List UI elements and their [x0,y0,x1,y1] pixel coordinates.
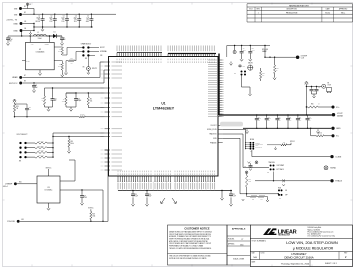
revision history table [247,3,353,5]
svg-text:SGND: SGND [330,168,336,170]
svg-text:C14: C14 [54,99,57,101]
svg-text:25V: 25V [74,19,76,21]
svg-text:3.3uH: 3.3uH [38,38,42,40]
svg-text:VIN: VIN [14,8,18,10]
svg-text:0.1uF: 0.1uF [252,50,255,52]
title block [250,225,352,267]
svg-text:1210: 1210 [62,21,65,23]
terminal E11 PGOOD [17,220,20,223]
svg-text:0.1uF: 0.1uF [135,196,139,198]
svg-text:R4: R4 [90,99,92,101]
svg-text:MODE: MODE [250,139,254,141]
jumper JP5 [241,71,243,73]
svg-text:4.7uF: 4.7uF [233,196,237,198]
capacitor C5 [90,14,92,18]
U1 top pins cluster A (VIN) [117,52,162,54]
U1 left pins [105,61,111,63]
resistor R4 [87,93,89,97]
svg-text:JP5: JP5 [234,73,236,75]
svg-text:EXTVCC: EXTVCC [9,83,18,85]
svg-text:E11: E11 [22,219,25,221]
svg-text:C5: C5 [87,16,89,18]
svg-text:C12: C12 [243,66,246,68]
svg-text:INTVCC: INTVCC [290,141,295,143]
svg-text:1uF: 1uF [35,87,37,89]
capacitor C9 [241,46,243,51]
svg-text:6.3V: 6.3V [299,119,302,121]
svg-text:C26: C26 [29,107,32,109]
svg-text:R16: R16 [311,104,314,106]
ground comp2 [65,105,67,107]
svg-text:6.3V: 6.3V [278,119,281,121]
wire VOUT rail [219,114,332,116]
capacitor C7 [61,36,63,38]
net flag temp [13,99,16,101]
capacitor C1 [42,14,44,18]
svg-text:22uF: 22uF [61,17,64,19]
U3 ground [48,203,50,206]
wire CLKIN [252,150,330,157]
svg-text:GND: GND [13,23,18,25]
svg-text:R13: R13 [248,179,251,181]
wire fb bus [53,133,105,157]
svg-text:54.9k: 54.9k [58,51,61,53]
net arrow flags [161,198,165,204]
svg-text:TRACK: TRACK [335,180,342,183]
turret E8 VOUT [322,84,326,88]
svg-text:C13: C13 [78,99,81,101]
svg-text:REV: REV [257,9,260,11]
terminal E2 VIN [19,13,22,16]
wire RUN [223,138,279,194]
svg-text:VIN: VIN [100,55,102,57]
wire mode vertical junctions [245,141,247,149]
svg-text:1M: 1M [16,108,18,110]
svg-text:ON: ON [285,190,287,192]
svg-text:54.9k: 54.9k [58,66,61,68]
svg-text:GND: GND [13,30,18,32]
capacitor C3 [66,14,68,18]
wire VIN rail [22,13,116,15]
svg-text:VCC: VCC [31,44,34,46]
capacitor C17 out [256,115,258,117]
svg-text:1uF: 1uF [63,39,65,41]
svg-text:100uF: 100uF [36,17,40,19]
svg-text:CUSTOMER NOTICE: CUSTOMER NOTICE [184,226,210,230]
svg-text:CLKOUT: CLKOUT [210,125,216,127]
svg-text:EXT PLLIN: EXT PLLIN [256,147,262,149]
resistor R15 [317,135,325,137]
svg-text:E8: E8 [328,83,330,85]
svg-text:100k: 100k [248,180,251,182]
dnp arrow track [248,162,251,164]
terminal E17 VO+ [331,105,334,108]
wire UPAR to U1 [22,62,104,77]
svg-text:Thursday, September 11, 2014: Thursday, September 11, 2014 [281,262,310,265]
jumper JP4 VOUT SELECT [19,142,21,144]
ground input rail [42,27,44,29]
turret E12 [233,50,236,53]
IC U3 LTC6908 [37,176,60,203]
svg-text:R5 90.9k: R5 90.9k [38,141,43,143]
svg-text:MODE_PLLIN: MODE_PLLIN [207,129,217,131]
svg-text:100pF: 100pF [78,100,82,102]
wire U3 OUT2 [60,190,103,221]
svg-text:C24: C24 [318,87,321,89]
svg-text:6.3V: 6.3V [268,119,271,121]
diode D1 [46,35,53,37]
svg-text:VOUT: VOUT [337,113,343,115]
svg-text:E9: E9 [24,81,26,83]
capacitor C24 sense [316,86,317,87]
wire COMPB net [66,92,105,94]
svg-text:PGOOD: PGOOD [7,221,15,223]
capacitor C19 [81,189,82,190]
svg-text:VIN: VIN [14,14,18,16]
resistor R1 [54,46,62,48]
capacitor C20 out [287,115,289,117]
resistor R19 [68,136,69,137]
svg-text:UTEMP: UTEMP [5,184,13,186]
svg-text:9/11/14: 9/11/14 [325,12,330,14]
svg-text:100: 100 [262,75,264,77]
svg-text:JP2: JP2 [267,172,269,174]
svg-text:VO+: VO+ [336,107,339,109]
svg-text:1nF: 1nF [54,100,56,102]
svg-text:PRODUCTION: PRODUCTION [286,12,298,14]
capacitor C2 [54,14,56,18]
resistor R8 [26,151,36,153]
svg-text:1210: 1210 [74,21,77,23]
U1 right pins (VOUT bus) [218,54,220,116]
wire U2 left pin [22,60,26,62]
svg-text:100k: 100k [62,100,65,102]
wire to jumper [62,48,83,56]
svg-text:R18: R18 [92,214,95,216]
svg-text:BOOST: BOOST [100,47,105,49]
resistor R12b [259,195,265,197]
svg-text:LT4440B05: LT4440B05 [36,51,45,53]
svg-text:Fax: (408)434-0507: Fax: (408)434-0507 [308,234,321,236]
svg-text:TBD-L: TBD-L [341,12,345,14]
svg-text:SHDN: SHDN [26,60,30,62]
terminal E18 VO- [331,134,334,137]
svg-text:VOUT: VOUT [328,85,332,87]
svg-text:μ MODULE REGULATOR: μ MODULE REGULATOR [293,247,334,251]
svg-text:C2: C2 [51,16,53,18]
svg-text:GND = 5: GND = 5 [3,186,8,188]
svg-text:VOUT SELECT: VOUT SELECT [16,134,27,136]
capacitor C21 out [297,115,299,117]
svg-text:KELVIN: KELVIN [248,63,253,65]
svg-text:L1: L1 [37,32,39,34]
svg-text:50V: 50V [9,41,11,43]
terminal E9 EXTVCC [19,82,22,85]
svg-text:RUN: RUN [278,187,281,189]
svg-text:10k: 10k [90,100,92,102]
svg-text:INTVCC: INTVCC [92,68,97,70]
svg-text:CLKIN: CLKIN [335,156,341,158]
svg-text:OSCON: OSCON [35,21,40,23]
capacitor C15 [132,191,134,193]
capacitor C8 [33,82,34,83]
turret E23 [245,171,248,174]
svg-text:C19: C19 [84,196,87,198]
svg-text:R7 60.4k: R7 60.4k [38,145,43,147]
svg-text:C16: C16 [149,194,152,196]
capacitor C18 out [266,115,268,117]
terminal E7 UPAR [19,76,22,79]
resistor R7 [26,147,36,149]
wire U2 top pins [29,36,31,42]
svg-text:R20: R20 [16,106,19,108]
svg-text:GND: GND [336,128,341,130]
turret E20 [255,161,258,164]
svg-text:1M: 1M [71,62,73,64]
svg-text:R11: R11 [252,199,254,201]
svg-text:22uF: 22uF [243,50,246,52]
resistor R6 [65,93,67,97]
terminal E21 TRACK [330,179,333,182]
terminal E4 GND [20,29,23,32]
terminal E1 VIN [19,7,22,10]
svg-text:UPAR: UPAR [12,76,18,79]
svg-text:E3: E3 [25,21,27,23]
svg-text:1uF: 1uF [87,17,89,19]
svg-text:2.375V - 7V: 2.375V - 7V [7,19,18,21]
dnp arrow run [242,199,245,201]
svg-text:JP6: JP6 [279,198,281,200]
svg-text:R17: R17 [70,58,73,60]
svg-text:60.4k: 60.4k [71,143,75,145]
svg-text:R9 19.1k: R9 19.1k [38,155,43,157]
svg-text:R19: R19 [71,141,74,143]
ground out rails [246,129,248,131]
svg-text:E1: E1 [24,6,26,8]
capacitor C26 [15,103,28,105]
wire EXTVCC to U1 [22,70,104,83]
U2 bottom pin ground [39,70,41,71]
net flag vout sense [305,84,307,115]
svg-text:100k: 100k [92,215,95,217]
svg-text:22uF: 22uF [49,17,52,19]
capacitor C14 [52,88,54,98]
dnp X marker [282,179,285,182]
svg-text:R23: R23 [276,68,279,70]
svg-text:VO-: VO- [336,136,339,138]
svg-text:JP4: JP4 [19,161,22,163]
svg-text:C4: C4 [75,16,77,18]
terminal E22 SGND [324,166,328,170]
op-amp U1 module LTM4626EY body [109,57,219,177]
resistor R23 [274,57,276,65]
wire temp row [14,116,15,117]
svg-text:C15: C15 [135,194,138,196]
terminal E19 CLKIN [330,155,333,158]
svg-text:6.3V: 6.3V [289,119,292,121]
wire TRACK to terminal [255,180,330,182]
wire jumper stubs [88,47,99,49]
svg-text:D1: D1 [54,32,56,34]
capacitor C11 track [250,164,252,167]
ground right of rail [221,191,223,197]
wire U3 OUT1 [60,160,75,181]
svg-text:22uF: 22uF [74,17,77,19]
svg-text:RUN: RUN [213,138,216,140]
capacitor C25 sense [311,86,312,87]
terminal E13 IOSTEP CLK [296,55,300,59]
svg-text:E10: E10 [19,182,22,184]
wire jumper left [76,51,83,53]
wire MODE_PLLIN [223,129,246,141]
svg-text:25V: 25V [38,19,40,21]
resistor R20 [13,104,15,112]
U1 bottom pins (GND clusters) [117,176,119,182]
capacitor C16 [146,191,148,193]
svg-text:SHEET 1 OF 1: SHEET 1 OF 1 [325,263,337,265]
svg-text:TECHNOLOGY: TECHNOLOGY [278,235,291,237]
svg-text:DESCRIPTION: DESCRIPTION [286,9,296,11]
svg-text:E7: E7 [24,75,26,77]
svg-text:R10: R10 [283,142,286,144]
terminal E10 UTEMP [14,182,17,185]
turret E6 INTVCC [87,55,89,66]
capacitor C19 out [276,115,278,117]
pour annotation [220,122,243,127]
svg-text:LOW VIN, 20A STEP-DOWN: LOW VIN, 20A STEP-DOWN [286,240,338,245]
connector footprint J1 [327,88,332,92]
resistor R12 [79,116,85,118]
svg-text:BOOST: BOOST [45,44,49,46]
svg-text:C1: C1 [38,16,40,18]
wire PGOOD [20,220,108,222]
resistor R9 [26,156,36,158]
wire output gnd rail [243,127,331,129]
svg-text:E5: E5 [30,4,32,6]
svg-text:OFF: OFF [285,195,288,197]
arrow dnp mode [275,147,277,149]
svg-text:DEMO CIRCUIT 2166A: DEMO CIRCUIT 2166A [284,256,313,260]
customer notice box [168,225,228,265]
turret E5 [26,3,28,5]
svg-text:C3: C3 [63,16,65,18]
svg-text:1210: 1210 [49,21,52,23]
approvals box [227,225,250,265]
svg-text:C22: C22 [233,194,236,196]
svg-text:R15 0: R15 0 [318,133,322,135]
capacitor C22 [230,191,232,193]
svg-text:LTM4626EY: LTM4626EY [153,105,175,110]
svg-text:25V: 25V [86,19,88,21]
resistor R13 [246,174,248,176]
svg-text:1: 1 [258,12,259,14]
resistor R5 [26,142,36,144]
resistor R3 compensation [44,88,46,96]
svg-text:22uF: 22uF [149,196,152,198]
wire TRACK/SS [223,134,269,168]
capacitor C23 polymer [307,115,309,117]
IC U2 LTC4440 boost driver [26,42,55,69]
svg-text:SIZE: SIZE [252,253,255,255]
svg-text:IC NO.: IC NO. [261,253,266,255]
wire U2 gnd pin [21,31,23,37]
svg-text:1uF: 1uF [29,109,31,111]
svg-text:E4: E4 [25,28,27,30]
svg-text:C11: C11 [244,166,246,168]
capacitor C13 [66,92,76,94]
svg-text:R22: R22 [262,73,265,75]
wire sense row [306,86,307,87]
terminal E16 VOUT [332,113,335,116]
resistor R10 [267,144,281,146]
svg-text:REVISION HISTORY: REVISION HISTORY [289,6,309,8]
resistor R2 [54,61,62,63]
terminal E15 GND [331,127,334,130]
svg-text:25V: 25V [62,19,64,21]
svg-text:0603: 0603 [86,21,89,23]
turret E14 KELVIN [248,65,253,70]
U1 top pins cluster B (VOUT top) [168,53,216,55]
wire UTEMP to U3 [17,183,37,185]
svg-text:25V: 25V [50,19,52,21]
wire IOSTEP [264,46,266,58]
capacitor C12 pll filter [239,64,241,65]
svg-text:U3: U3 [47,187,49,189]
capacitor C10 [249,46,251,51]
resistor R22 [260,71,262,79]
wire COMPA net [45,87,105,89]
capacitor C4 [78,14,80,18]
svg-text:R8 40.2k: R8 40.2k [38,150,43,152]
svg-text:6.3V: 6.3V [258,119,261,121]
svg-text:E2: E2 [24,12,26,14]
Linear Technology logo [263,228,297,236]
svg-text:0.1uF: 0.1uF [84,197,88,199]
svg-text:JP4: JP4 [85,58,88,60]
resistor R11 [251,195,257,197]
wire GND rail [23,23,34,25]
svg-text:APPROVALS: APPROVALS [232,228,246,231]
svg-text:2.5V: 2.5V [308,119,311,121]
resistor R16 [306,106,307,107]
svg-text:INTVCC: INTVCC [46,167,53,169]
ground comp [44,105,46,107]
svg-text:R12 10: R12 10 [80,114,84,116]
svg-text:E6: E6 [83,67,85,69]
capacitor C6 input of boost [8,35,62,37]
wire top-right feed [227,45,270,47]
svg-text:LTC6908-1: LTC6908-1 [45,190,53,192]
svg-text:PCB DES.: PCB DES. [228,238,235,240]
terminal E3 GND [20,22,23,25]
resistor R17 [69,60,75,62]
